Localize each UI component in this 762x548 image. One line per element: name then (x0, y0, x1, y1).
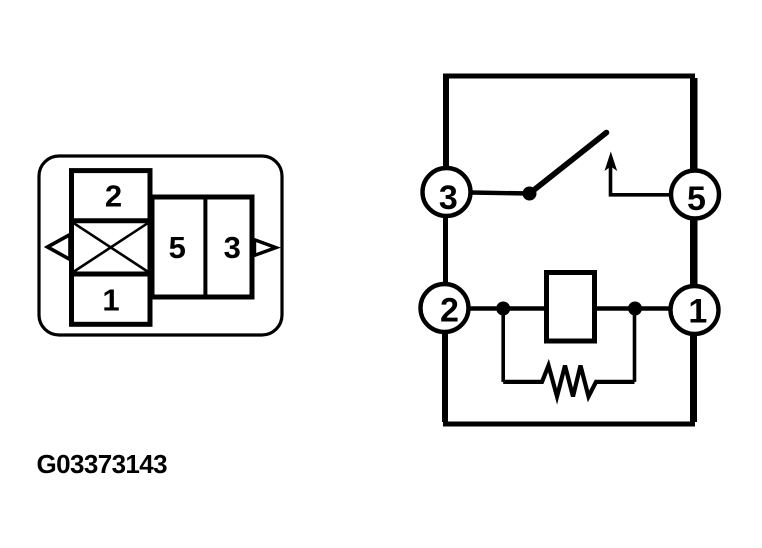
svg-text:G03373143: G03373143 (37, 449, 168, 479)
wire terminal 3 to terminal 2 (443, 216, 448, 284)
wire terminal 2 to case bottom (442, 332, 447, 422)
junction dot right (628, 302, 642, 316)
svg-text:5: 5 (687, 180, 706, 218)
terminal 3 (423, 168, 471, 216)
wire case to terminal 5 (693, 78, 698, 171)
resistor branch left drop (501, 309, 505, 382)
svg-text:2: 2 (440, 291, 459, 329)
connector outline P1 (39, 156, 282, 335)
terminal 1 (671, 286, 719, 334)
pin housing stack (72, 171, 151, 325)
svg-text:1: 1 (688, 292, 707, 330)
wire coil to terminal 1 (594, 306, 671, 310)
svg-text:1: 1 (102, 283, 119, 318)
divider pin5/pin3 (203, 197, 207, 297)
switch pivot junction (523, 187, 537, 201)
wire terminal 1 to case bottom (692, 334, 697, 422)
right keying arrow (255, 240, 277, 256)
relay case (446, 76, 693, 424)
divider pin2/keyway (72, 218, 151, 223)
resistor R (503, 366, 634, 397)
divider keyway/pin1 (72, 272, 151, 277)
terminal 5 (671, 171, 719, 219)
keyway X diagonal 2 (74, 223, 148, 271)
svg-text:3: 3 (439, 179, 458, 217)
actuation arrow head (605, 152, 618, 172)
wire terminal 5 to terminal 1 (693, 219, 698, 287)
junction dot left (496, 302, 510, 316)
svg-text:2: 2 (105, 179, 122, 214)
svg-text:3: 3 (224, 230, 241, 265)
wire case to terminal 3 (444, 78, 449, 168)
wire terminal 2 to coil (469, 306, 548, 310)
terminal 2 (421, 284, 469, 332)
actuation arrow shaft and wire to terminal 5 (611, 158, 670, 195)
pin 5/3 housing (152, 197, 252, 297)
keyway X diagonal 1 (74, 223, 148, 271)
wire terminal 3 to switch pivot (471, 193, 530, 194)
svg-text:5: 5 (169, 230, 186, 265)
left keying arrow (48, 235, 71, 260)
switch blade (530, 133, 607, 194)
resistor branch right drop (633, 309, 637, 382)
relay coil (547, 273, 595, 342)
